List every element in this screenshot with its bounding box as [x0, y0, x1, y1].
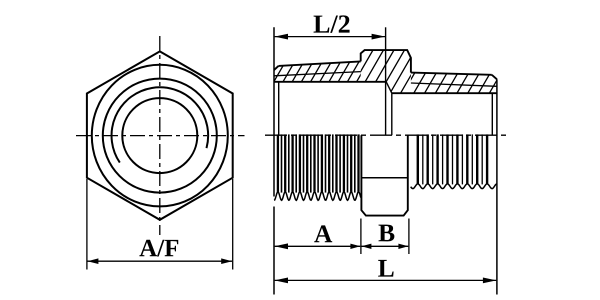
L right arrow	[483, 278, 497, 284]
right band hatching	[392, 71, 513, 94]
bore taper	[386, 82, 392, 93]
L/2 dimension line	[275, 36, 385, 38]
right thread OD top edge (tapered)	[411, 73, 492, 75]
horizontal centerline	[76, 135, 245, 137]
right bore entry chamfer line	[491, 93, 493, 135]
left thread profile (wave)	[274, 192, 361, 201]
vertical centerline	[159, 36, 161, 235]
A/F left extension line	[86, 179, 88, 270]
B dimension line	[362, 245, 409, 247]
left bore line	[274, 81, 386, 83]
L dimension line	[275, 279, 497, 281]
A/F right arrow	[221, 258, 232, 264]
L/2 left arrow	[275, 34, 289, 40]
right end chamfer	[492, 75, 497, 80]
label A/F	[139, 240, 178, 257]
B left arrow	[361, 244, 371, 249]
hex boss chamfer line	[361, 177, 407, 179]
outer chamfer circle	[92, 65, 228, 207]
right end face and L extension line	[496, 79, 498, 294]
left end face line	[273, 27, 275, 196]
A/F dimension line	[88, 260, 233, 262]
thread major diameter circle	[103, 79, 217, 193]
A/F left arrow	[87, 258, 98, 264]
left thread bars	[278, 134, 359, 192]
right thread profile (wave)	[411, 184, 497, 189]
right thread root line	[411, 83, 497, 86]
left dimension extension line	[273, 207, 275, 295]
B left extension line	[360, 219, 362, 255]
label B	[379, 225, 395, 242]
right bore end line	[391, 93, 393, 135]
left thread OD top edge (tapered)	[279, 61, 361, 66]
label L	[378, 260, 394, 277]
hexagon end view outline	[87, 51, 233, 219]
left end chamfer	[274, 66, 279, 70]
right bore line	[392, 92, 497, 94]
B right arrow	[398, 244, 408, 249]
label L/2	[314, 15, 350, 32]
L/2 right arrow	[372, 34, 386, 40]
bore circle	[122, 98, 197, 173]
A/F right extension line	[232, 179, 234, 270]
hex section top outline	[361, 50, 411, 73]
left band hatching	[255, 60, 379, 83]
A right arrow	[350, 244, 360, 249]
hex boss lower half outline	[361, 135, 407, 215]
axis centerline	[265, 134, 510, 136]
L left arrow	[275, 278, 289, 284]
left bore entry chamfer line	[278, 82, 280, 135]
hex section hatching	[327, 50, 436, 94]
right thread bars	[418, 134, 487, 184]
label A	[314, 225, 332, 242]
A dimension line	[275, 245, 361, 247]
thread root arc (3/4 circle)	[112, 87, 209, 162]
B right extension line	[408, 219, 410, 255]
left thread root line	[274, 72, 361, 76]
mid plane line (L/2 extension through hex to axis)	[385, 27, 387, 135]
A left arrow	[275, 243, 289, 249]
